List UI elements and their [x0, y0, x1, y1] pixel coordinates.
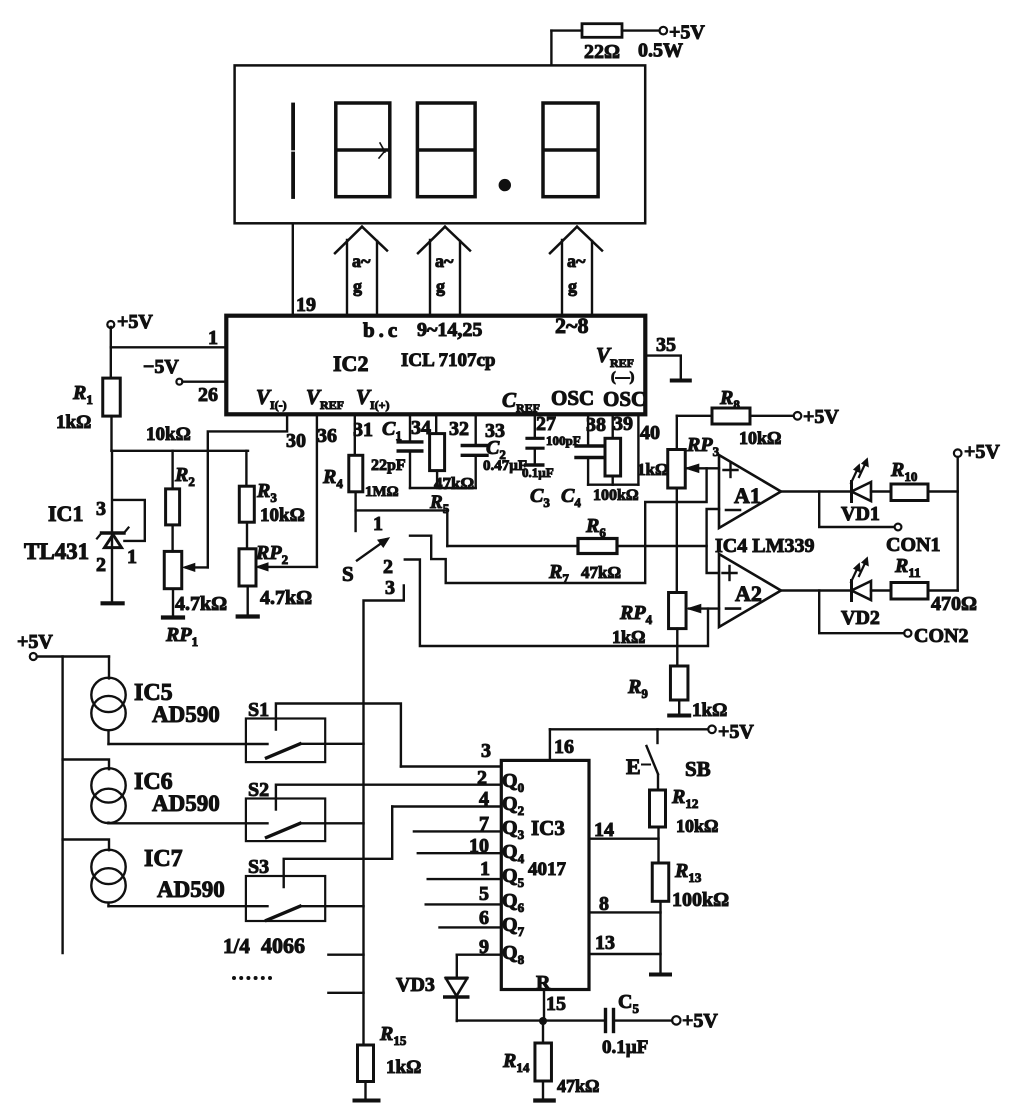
svg-text:26: 26 — [198, 384, 218, 406]
svg-text:47kΩ: 47kΩ — [557, 1076, 599, 1096]
svg-text:+5V: +5V — [682, 1010, 718, 1032]
svg-text:g: g — [353, 276, 362, 296]
svg-text:13: 13 — [595, 932, 615, 954]
svg-text:VD2: VD2 — [841, 607, 880, 629]
svg-text:33: 33 — [485, 420, 505, 442]
svg-text:10kΩ: 10kΩ — [146, 424, 191, 445]
svg-text:CON2: CON2 — [914, 625, 968, 647]
svg-text:36: 36 — [317, 425, 337, 447]
svg-text:10kΩ: 10kΩ — [260, 505, 305, 526]
svg-text:6: 6 — [479, 907, 489, 929]
svg-text:0.1µF: 0.1µF — [602, 1037, 648, 1058]
svg-text:a~: a~ — [567, 251, 586, 271]
svg-text:b.c: b.c — [363, 318, 401, 342]
svg-text:+5V: +5V — [17, 631, 53, 653]
svg-text:1: 1 — [373, 513, 383, 535]
svg-text:1/4: 1/4 — [223, 934, 250, 958]
svg-text:TL431: TL431 — [24, 539, 89, 564]
svg-text:IC4 LM339: IC4 LM339 — [715, 535, 814, 557]
svg-text:3: 3 — [385, 577, 395, 599]
svg-text:a~: a~ — [435, 251, 454, 271]
svg-text:47kΩ: 47kΩ — [434, 474, 474, 493]
svg-text:+5V: +5V — [117, 311, 153, 333]
svg-text:S2: S2 — [248, 779, 269, 801]
svg-text:9~14,25: 9~14,25 — [417, 319, 482, 341]
svg-text:3: 3 — [481, 740, 491, 762]
svg-text:g: g — [436, 276, 445, 296]
svg-text:CON1: CON1 — [886, 534, 940, 556]
svg-text:1: 1 — [480, 858, 490, 880]
svg-text:+5V: +5V — [803, 406, 839, 428]
svg-text:AD590: AD590 — [152, 791, 220, 816]
svg-text:(—): (—) — [611, 370, 635, 385]
svg-text:3: 3 — [96, 498, 106, 520]
svg-text:AD590: AD590 — [152, 702, 220, 727]
svg-text:1kΩ: 1kΩ — [637, 460, 669, 479]
svg-text:16: 16 — [554, 736, 574, 758]
svg-text:5: 5 — [479, 883, 489, 905]
svg-text:34: 34 — [411, 417, 431, 439]
svg-text:40: 40 — [640, 422, 660, 444]
svg-text:27: 27 — [536, 413, 556, 435]
svg-text:15: 15 — [546, 993, 566, 1015]
svg-text:4.7kΩ: 4.7kΩ — [260, 587, 312, 609]
svg-text:IC2: IC2 — [333, 351, 368, 376]
svg-text:14: 14 — [594, 819, 614, 841]
svg-text:VD1: VD1 — [841, 503, 880, 525]
svg-text:2: 2 — [96, 554, 106, 576]
svg-text:4017: 4017 — [528, 859, 567, 880]
svg-text:1kΩ: 1kΩ — [612, 627, 645, 647]
svg-text:22pF: 22pF — [371, 457, 406, 474]
svg-text:a~: a~ — [352, 251, 371, 271]
svg-text:2~8: 2~8 — [555, 313, 588, 338]
svg-text:IC7: IC7 — [144, 846, 183, 872]
svg-text:1: 1 — [127, 546, 137, 568]
svg-text:−5V: −5V — [143, 356, 179, 378]
svg-text:0.47µF: 0.47µF — [483, 458, 527, 474]
svg-text:OSC: OSC — [551, 386, 594, 410]
svg-text:IC3: IC3 — [531, 816, 565, 840]
svg-text:+5V: +5V — [718, 721, 754, 743]
svg-text:1: 1 — [208, 327, 218, 349]
svg-text:35: 35 — [656, 334, 676, 356]
svg-text:0.5W: 0.5W — [638, 40, 683, 62]
svg-text:30: 30 — [286, 430, 306, 452]
svg-text:E: E — [626, 754, 641, 779]
svg-text:VD3: VD3 — [396, 974, 435, 996]
svg-text:19: 19 — [296, 294, 316, 316]
svg-text:A2: A2 — [735, 581, 762, 606]
svg-text:100kΩ: 100kΩ — [672, 889, 729, 911]
svg-text:1MΩ: 1MΩ — [365, 484, 399, 500]
svg-text:1kΩ: 1kΩ — [56, 412, 91, 433]
svg-text:S3: S3 — [248, 856, 269, 878]
svg-text:32: 32 — [449, 418, 469, 440]
svg-text:4066: 4066 — [261, 933, 305, 958]
svg-text:A1: A1 — [734, 483, 761, 508]
svg-text:S1: S1 — [248, 699, 269, 721]
svg-text:39: 39 — [613, 413, 633, 435]
svg-text:470Ω: 470Ω — [931, 593, 977, 615]
svg-text:IC1: IC1 — [48, 501, 83, 526]
svg-text:ICL 7107cp: ICL 7107cp — [401, 350, 496, 371]
svg-text:g: g — [568, 276, 577, 296]
svg-text:10kΩ: 10kΩ — [676, 816, 718, 836]
svg-text:0.1µF: 0.1µF — [522, 465, 554, 480]
svg-text:8: 8 — [599, 893, 609, 915]
svg-text:AD590: AD590 — [157, 877, 225, 902]
svg-text:OSC: OSC — [603, 387, 646, 411]
svg-text:10kΩ: 10kΩ — [739, 428, 781, 448]
svg-text:100kΩ: 100kΩ — [593, 487, 639, 504]
svg-text:+5V: +5V — [964, 441, 1000, 463]
svg-text:2: 2 — [383, 556, 393, 578]
svg-text:1kΩ: 1kΩ — [692, 700, 727, 721]
svg-text:SB: SB — [685, 757, 711, 781]
svg-text:S: S — [342, 562, 354, 586]
svg-text:47kΩ: 47kΩ — [581, 563, 621, 582]
svg-text:4.7kΩ: 4.7kΩ — [175, 593, 227, 615]
svg-text:1kΩ: 1kΩ — [386, 1057, 421, 1078]
svg-text:22Ω: 22Ω — [584, 41, 620, 63]
